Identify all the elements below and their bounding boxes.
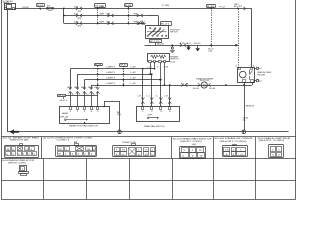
svg-text:B-05: B-05 bbox=[95, 64, 102, 66]
svg-text:10: 10 bbox=[199, 150, 202, 152]
svg-text:1: 1 bbox=[142, 111, 144, 113]
svg-text:L: L bbox=[156, 96, 158, 98]
svg-text:1: 1 bbox=[272, 149, 274, 151]
svg-text:BRN-B: BRN-B bbox=[246, 106, 255, 108]
svg-text:1: 1 bbox=[23, 154, 25, 156]
svg-text:L-W: L-W bbox=[131, 83, 137, 85]
svg-text:3: 3 bbox=[160, 111, 162, 113]
svg-text:18: 18 bbox=[199, 156, 202, 158]
svg-text:1/8: 1/8 bbox=[7, 149, 10, 151]
svg-text:4: 4 bbox=[28, 154, 30, 156]
svg-text:4: 4 bbox=[233, 154, 235, 156]
svg-text:1: 1 bbox=[70, 111, 72, 113]
svg-text:3: 3 bbox=[182, 156, 184, 158]
svg-text:B-2: B-2 bbox=[208, 48, 213, 50]
svg-text:1/8: 1/8 bbox=[58, 149, 61, 151]
svg-text:8: 8 bbox=[33, 154, 35, 156]
svg-text:4: 4 bbox=[226, 154, 228, 156]
svg-text:4-02: 4-02 bbox=[74, 14, 79, 16]
svg-text:SWITCH (B): SWITCH (B) bbox=[10, 139, 30, 141]
svg-text:SWITCH: SWITCH bbox=[170, 32, 178, 34]
svg-text:5: 5 bbox=[97, 111, 99, 113]
svg-text:L-WHT3: L-WHT3 bbox=[106, 72, 115, 74]
svg-text:40-03 REAR FAN SWITCH: 40-03 REAR FAN SWITCH bbox=[172, 137, 212, 140]
svg-text:4: 4 bbox=[93, 149, 95, 151]
svg-text:L: L bbox=[66, 149, 68, 151]
svg-text:WHT: WHT bbox=[100, 6, 105, 8]
svg-text:B: B bbox=[117, 112, 120, 114]
svg-text:P-2: P-2 bbox=[220, 6, 226, 8]
svg-text:40: 40 bbox=[192, 144, 197, 146]
svg-text:L-W: L-W bbox=[138, 96, 142, 98]
svg-text:8/L: 8/L bbox=[58, 154, 61, 156]
svg-text:B: B bbox=[74, 142, 78, 144]
svg-text:L-WHT3: L-WHT3 bbox=[106, 83, 115, 85]
svg-text:(SHORT CORD): (SHORT CORD) bbox=[220, 141, 248, 143]
svg-text:(SHORT CORD): (SHORT CORD) bbox=[8, 162, 27, 164]
svg-text:L-WHT3: L-WHT3 bbox=[106, 67, 115, 69]
svg-text:2: 2 bbox=[151, 111, 153, 113]
svg-text:4D-04: 4D-04 bbox=[170, 61, 175, 63]
svg-text:4P-05: 4P-05 bbox=[194, 43, 201, 45]
svg-text:8/L: 8/L bbox=[87, 149, 90, 151]
svg-text:3: 3 bbox=[84, 111, 86, 113]
svg-text:2: 2 bbox=[84, 154, 86, 156]
svg-text:4F-10: 4F-10 bbox=[58, 95, 65, 97]
svg-text:4: 4 bbox=[31, 149, 33, 151]
svg-text:9: 9 bbox=[184, 150, 186, 152]
svg-text:WHT: WHT bbox=[78, 11, 82, 13]
svg-text:8: 8 bbox=[18, 154, 20, 156]
svg-text:WHT: WHT bbox=[100, 21, 105, 23]
svg-text:L-WHT3: L-WHT3 bbox=[106, 78, 115, 80]
svg-text:M: M bbox=[203, 83, 206, 87]
svg-text:B: B bbox=[5, 5, 6, 7]
svg-text:(SHORT CORD): (SHORT CORD) bbox=[259, 140, 285, 142]
svg-text:L: L bbox=[240, 150, 242, 152]
svg-text:4: 4 bbox=[65, 154, 67, 156]
svg-text:4D-04: 4D-04 bbox=[193, 88, 199, 90]
svg-text:8: 8 bbox=[192, 156, 194, 158]
svg-text:3: 3 bbox=[91, 154, 93, 156]
svg-text:RELAY: RELAY bbox=[257, 74, 266, 77]
svg-text:3: 3 bbox=[278, 155, 280, 157]
svg-text:WHT: WHT bbox=[78, 26, 82, 28]
svg-text:CORD 1: CORD 1 bbox=[57, 140, 70, 142]
svg-text:4: 4 bbox=[272, 155, 274, 157]
svg-text:WHT: WHT bbox=[78, 18, 82, 20]
svg-text:1: 1 bbox=[22, 169, 24, 171]
svg-text:RESISTOR: RESISTOR bbox=[170, 59, 179, 61]
svg-text:Y-30: Y-30 bbox=[162, 5, 170, 7]
svg-text:4: 4 bbox=[12, 149, 14, 151]
svg-text:MOTOR: MOTOR bbox=[200, 80, 210, 82]
svg-text:1/L: 1/L bbox=[25, 149, 28, 151]
svg-text:4D-04: 4D-04 bbox=[209, 88, 215, 90]
svg-text:4: 4 bbox=[91, 111, 93, 113]
svg-text:3: 3 bbox=[12, 154, 14, 156]
svg-text:L: L bbox=[157, 67, 159, 69]
svg-text:4-03: 4-03 bbox=[74, 21, 79, 23]
svg-text:1: 1 bbox=[192, 150, 194, 152]
svg-text:L-W: L-W bbox=[131, 67, 137, 69]
svg-text:WHT: WHT bbox=[100, 14, 105, 16]
svg-text:3: 3 bbox=[72, 154, 74, 156]
svg-text:REAR FAN SWITCH: REAR FAN SWITCH bbox=[144, 125, 165, 128]
svg-text:B: B bbox=[7, 154, 8, 156]
svg-text:L-W: L-W bbox=[131, 72, 137, 74]
svg-text:4F-11 4: 4F-11 4 bbox=[59, 100, 67, 102]
svg-text:4: 4 bbox=[235, 66, 237, 68]
svg-text:2: 2 bbox=[278, 149, 280, 151]
svg-text:4-01: 4-01 bbox=[74, 6, 79, 8]
svg-text:40-04 REAR BLOWER: 40-04 REAR BLOWER bbox=[215, 137, 254, 140]
svg-text:OFF-ON: OFF-ON bbox=[60, 116, 69, 118]
svg-text:L-W: L-W bbox=[164, 67, 169, 69]
svg-text:4: 4 bbox=[233, 150, 235, 152]
svg-text:4: 4 bbox=[78, 154, 80, 156]
svg-text:REAR HTR FAN SWITCH: REAR HTR FAN SWITCH bbox=[69, 125, 99, 128]
svg-text:4: 4 bbox=[169, 111, 171, 113]
svg-text:L-W: L-W bbox=[131, 78, 137, 80]
svg-text:2: 2 bbox=[77, 111, 79, 113]
svg-text:BLK-WHT: BLK-WHT bbox=[22, 7, 29, 9]
